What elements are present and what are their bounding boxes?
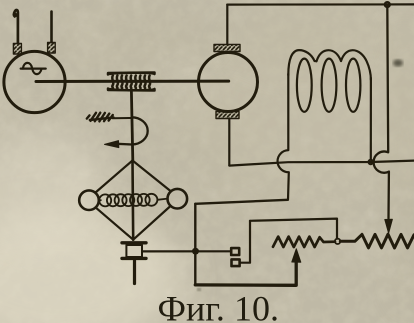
motor M1 body [199,53,258,112]
AC sine symbol inside G1 [21,63,46,74]
alternator G1 body [4,51,65,112]
inductor coil L1 right leg [370,78,372,160]
rheostat R2 zigzag [340,234,414,248]
left riser wire [194,204,196,285]
governor: diamond linkage [96,161,171,240]
svg-text:Фиг.: Фиг. [158,289,225,323]
M1 bottom brush pad [216,112,239,119]
wire to coil leg [195,200,287,204]
contact square S1 [231,248,239,255]
lower bus wire [229,161,414,166]
governor fly-ball right [168,189,188,209]
right drop wire to wiper arrow [374,5,389,219]
M1 top brush pad [214,45,240,52]
coupling/pulley on shaft [108,73,155,91]
governor spring [99,194,168,207]
wire M1 bottom to lower bus [228,119,230,166]
brush pad (G1 left terminal) [13,44,21,55]
wire M1 top to top bus [226,5,228,45]
inductor coil L1 loops [288,50,371,112]
wire interrupter to junction [143,250,232,252]
shaft through governor [131,161,134,240]
terminal lead (right) [50,12,53,43]
junction dot A [192,248,199,255]
wire upper run to node circle [250,219,337,239]
shaft from G1 to M1 [36,80,229,83]
top bus wire [227,3,414,5]
interrupter block [122,243,146,259]
node circle B [335,239,340,244]
shaft down from coupling to governor [131,91,132,161]
ink smudge [393,59,403,66]
bottom run to wiper arrow [195,258,296,285]
contact square S2 [232,259,240,266]
inductor coil L1 left leg [278,74,289,200]
svg-text:10.: 10. [234,289,279,323]
wiper arrow down (rheostat R2) [385,219,393,233]
wiper arrow up (rheostat R1) [292,249,301,262]
stub below interrupter [133,261,136,284]
brush pad (G1 right terminal) [48,43,56,54]
terminal lead with hook (left) [14,10,18,43]
rheostat R1 zigzag [273,237,335,247]
wire S2 to riser [240,221,250,263]
governor fly-ball left [79,190,99,210]
junction ring D (coil tap) [369,160,373,164]
rotation arrow around shaft [117,117,148,144]
worm adjuster (hatched arrow) [87,113,131,122]
junction ring C [385,2,390,7]
